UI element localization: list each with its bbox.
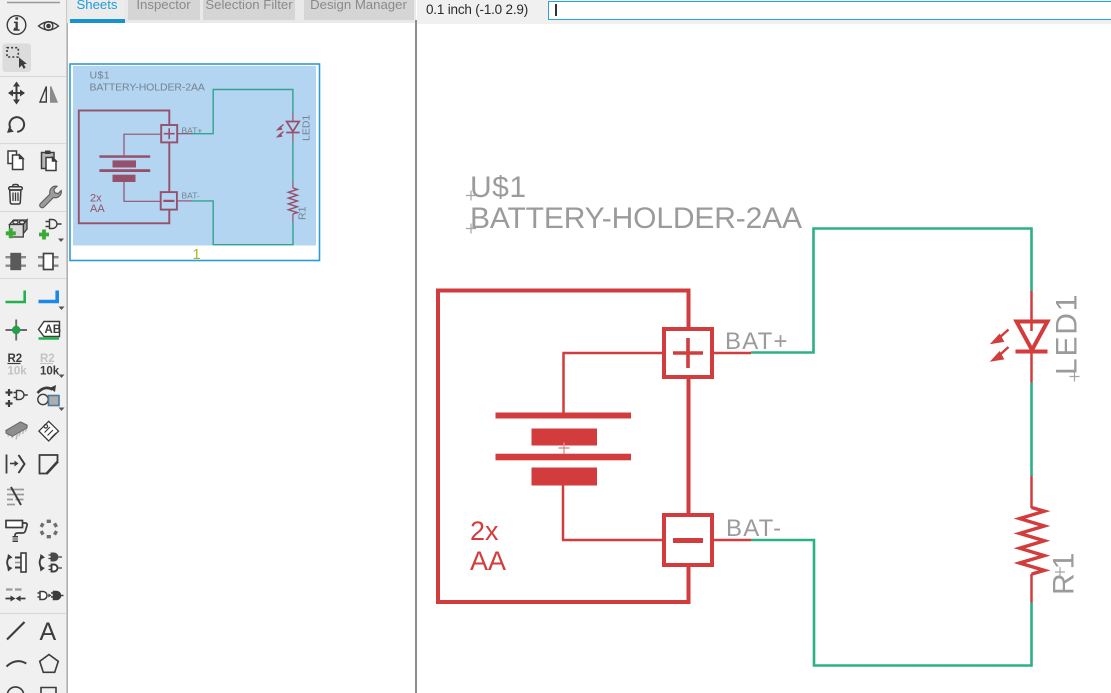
- thumb wire LED1 to R1: [292, 142, 294, 181]
- icon: polygon: [40, 655, 59, 673]
- thumb pin stub BAT-: [177, 200, 192, 202]
- thumb LED1 arrows: [278, 125, 284, 137]
- thumb battery plate 2: [113, 160, 137, 167]
- icon: eye: [39, 22, 59, 31]
- svg-text:A: A: [40, 618, 57, 646]
- origin cross of R1 label: [1055, 567, 1065, 577]
- svg-text:BATTERY-HOLDER-2AA: BATTERY-HOLDER-2AA: [90, 82, 205, 94]
- thumb label R1 (rotated): [297, 206, 309, 220]
- toolbar separator 2: [0, 143, 66, 145]
- thumb LED1 cathode pin: [292, 133, 294, 143]
- battery symbol plate 1 (long): [496, 413, 632, 419]
- icon: name: [8, 353, 28, 378]
- icon: select (active): [3, 44, 32, 73]
- LED1 cathode pin wire: [1030, 352, 1033, 383]
- origin cross of LED1 label: [1070, 372, 1080, 382]
- label BAT+: [725, 328, 789, 355]
- svg-text:R1: R1: [297, 206, 309, 220]
- icon: arc: [7, 661, 27, 666]
- sheet number 1: [193, 247, 201, 263]
- thumb label LED1 (rotated): [301, 115, 313, 141]
- icon: fixpos: [6, 590, 26, 602]
- thumb battery plate 3: [99, 169, 150, 172]
- svg-text:2x: 2x: [470, 516, 499, 546]
- wire from battery minus plate to BAT- pin box: [562, 485, 664, 541]
- svg-text:BATTERY-HOLDER-2AA: BATTERY-HOLDER-2AA: [470, 202, 802, 235]
- battery symbol plate 4 (thick): [532, 468, 598, 486]
- thumb wire battery to BAT+: [124, 134, 160, 155]
- LED1 diode triangle: [1017, 322, 1048, 351]
- wire between LED1 and R1: [1030, 383, 1033, 477]
- LED1 light emission arrow 1: [993, 330, 1009, 343]
- R1 top pin wire: [1030, 476, 1033, 508]
- icon: value: [40, 353, 65, 378]
- svg-text:BAT+: BAT+: [725, 328, 789, 355]
- BAT- pin box: [664, 515, 712, 565]
- icon: device (outline): [38, 254, 59, 270]
- text U$1 (name of battery holder): [470, 171, 527, 204]
- thumb text U$1: [90, 70, 110, 82]
- toolbar separator 4: [0, 278, 66, 280]
- icon: invoke gate: [6, 389, 28, 407]
- icon: wrench: [40, 186, 62, 208]
- icon: add gate: [39, 220, 64, 243]
- icon: circle (partial): [8, 687, 24, 693]
- toolbar separator 5: [0, 613, 66, 615]
- icon: package 3d: [6, 422, 27, 440]
- icon: mapgate: [38, 592, 64, 600]
- svg-text:U$1: U$1: [90, 70, 110, 82]
- icon: move: [8, 82, 25, 105]
- thumb battery plate 4: [113, 175, 136, 182]
- svg-text:LED1: LED1: [1051, 293, 1084, 375]
- svg-text:10k: 10k: [40, 366, 60, 378]
- resistor R1 zigzag: [1020, 508, 1045, 575]
- icon: mirror: [40, 87, 57, 103]
- thumb plus sign: [164, 128, 175, 139]
- battery holder U$1 outline rectangle: [438, 291, 689, 603]
- icon: split: [7, 487, 24, 505]
- icon: info: [7, 16, 26, 35]
- text BATTERY-HOLDER-2AA (value of battery holder): [470, 202, 802, 235]
- pin stub BAT+: [712, 352, 751, 355]
- sheet drawing area (blue): [73, 66, 316, 246]
- origin cross of text U$1: [466, 191, 476, 201]
- plus sign inside BAT+ box: [673, 338, 703, 368]
- icon: delete (trash): [9, 185, 23, 205]
- BAT+ pin box: [664, 329, 712, 377]
- icon: line: [7, 622, 25, 640]
- minus sign inside BAT- box: [673, 538, 703, 543]
- LED1 anode pin wire: [1030, 291, 1033, 331]
- sheet thumbnail frame: [70, 64, 320, 261]
- thumb battery holder U$1 outline: [79, 111, 170, 224]
- icon: pinarray: [7, 455, 25, 474]
- icon: replace: [38, 385, 65, 411]
- thumb battery plate 1: [99, 155, 150, 158]
- thumb pin stub BAT+: [177, 133, 191, 135]
- icon: rect (partial): [41, 688, 56, 693]
- svg-text:LED1: LED1: [301, 115, 313, 141]
- thumb LED1 cathode bar: [286, 132, 299, 134]
- thumb R1 top pin: [292, 181, 294, 188]
- svg-text:BAT-: BAT-: [182, 191, 200, 201]
- icon: rotate: [7, 117, 24, 133]
- icon: text: [40, 618, 57, 646]
- icon: label: [39, 322, 62, 339]
- thumb label 2x: [90, 193, 102, 205]
- thumb label AA: [90, 203, 105, 215]
- icon: pinswap: [7, 553, 26, 572]
- pin stub BAT-: [712, 539, 751, 542]
- thumb R1 bottom pin: [292, 214, 294, 222]
- toolbar separator 3: [0, 211, 66, 213]
- svg-text:1: 1: [193, 247, 201, 263]
- svg-text:AA: AA: [90, 203, 105, 215]
- icon: junction: [6, 320, 28, 341]
- thumb label BAT+: [182, 126, 203, 136]
- battery symbol plate 3 (long): [496, 454, 632, 461]
- icon: bus dropdown: [59, 307, 65, 311]
- icon: copy: [8, 151, 23, 170]
- icon: net: [6, 291, 25, 303]
- thumb label BAT-: [182, 191, 200, 201]
- svg-text:U$1: U$1: [470, 171, 527, 204]
- thumb minus sign: [163, 200, 174, 202]
- icon: add part: [6, 220, 27, 238]
- icon: paste: [42, 151, 57, 171]
- label AA: [470, 546, 506, 576]
- R1 bottom pin wire: [1030, 574, 1033, 603]
- icon: attribute tag: [39, 421, 59, 441]
- net wire N$1: BAT+ to LED1 anode: [751, 229, 1032, 353]
- label BAT-: [726, 515, 782, 542]
- thumb resistor R1 zigzag: [288, 188, 297, 214]
- thumb wire battery to BAT-: [124, 182, 160, 201]
- svg-text:AB: AB: [45, 324, 62, 336]
- thumb LED1 anode pin: [292, 113, 294, 122]
- thumb LED1 triangle: [287, 122, 300, 132]
- icon: miter: [40, 455, 59, 474]
- icon: bus: [39, 291, 58, 302]
- icon: symbol (filled): [6, 254, 27, 270]
- toolbar separator 1: [0, 76, 66, 78]
- origin cross of U$1 part: [559, 443, 570, 454]
- icon: paint roller: [6, 521, 27, 543]
- label LED1 (rotated): [1051, 293, 1084, 375]
- battery symbol plate 2 (thick): [532, 429, 598, 446]
- wire from battery plus plate to BAT+ pin box: [562, 353, 664, 413]
- LED1 light emission arrow 2: [993, 347, 1009, 360]
- thumb text BATTERY-HOLDER-2AA: [90, 82, 205, 94]
- thumb BAT- pin box: [161, 192, 177, 210]
- label 2x: [470, 516, 499, 546]
- svg-text:BAT-: BAT-: [726, 515, 782, 542]
- svg-text:10k: 10k: [8, 366, 28, 378]
- label R1 (rotated): [1048, 549, 1081, 595]
- thumb net N$1: [192, 90, 293, 134]
- origin cross of text BATTERY-HOLDER-2AA: [466, 224, 476, 234]
- svg-text:AA: AA: [470, 546, 506, 576]
- icon: group dotted circle: [41, 521, 56, 536]
- LED1 cathode bar: [1016, 350, 1048, 354]
- net wire N$2: BAT- to R1 bottom: [751, 540, 1032, 666]
- thumb BAT+ pin box: [161, 125, 177, 142]
- thumb net N$2: [192, 201, 294, 245]
- icon: partial row top: [7, 2, 60, 4]
- icon: gateswap: [40, 554, 63, 572]
